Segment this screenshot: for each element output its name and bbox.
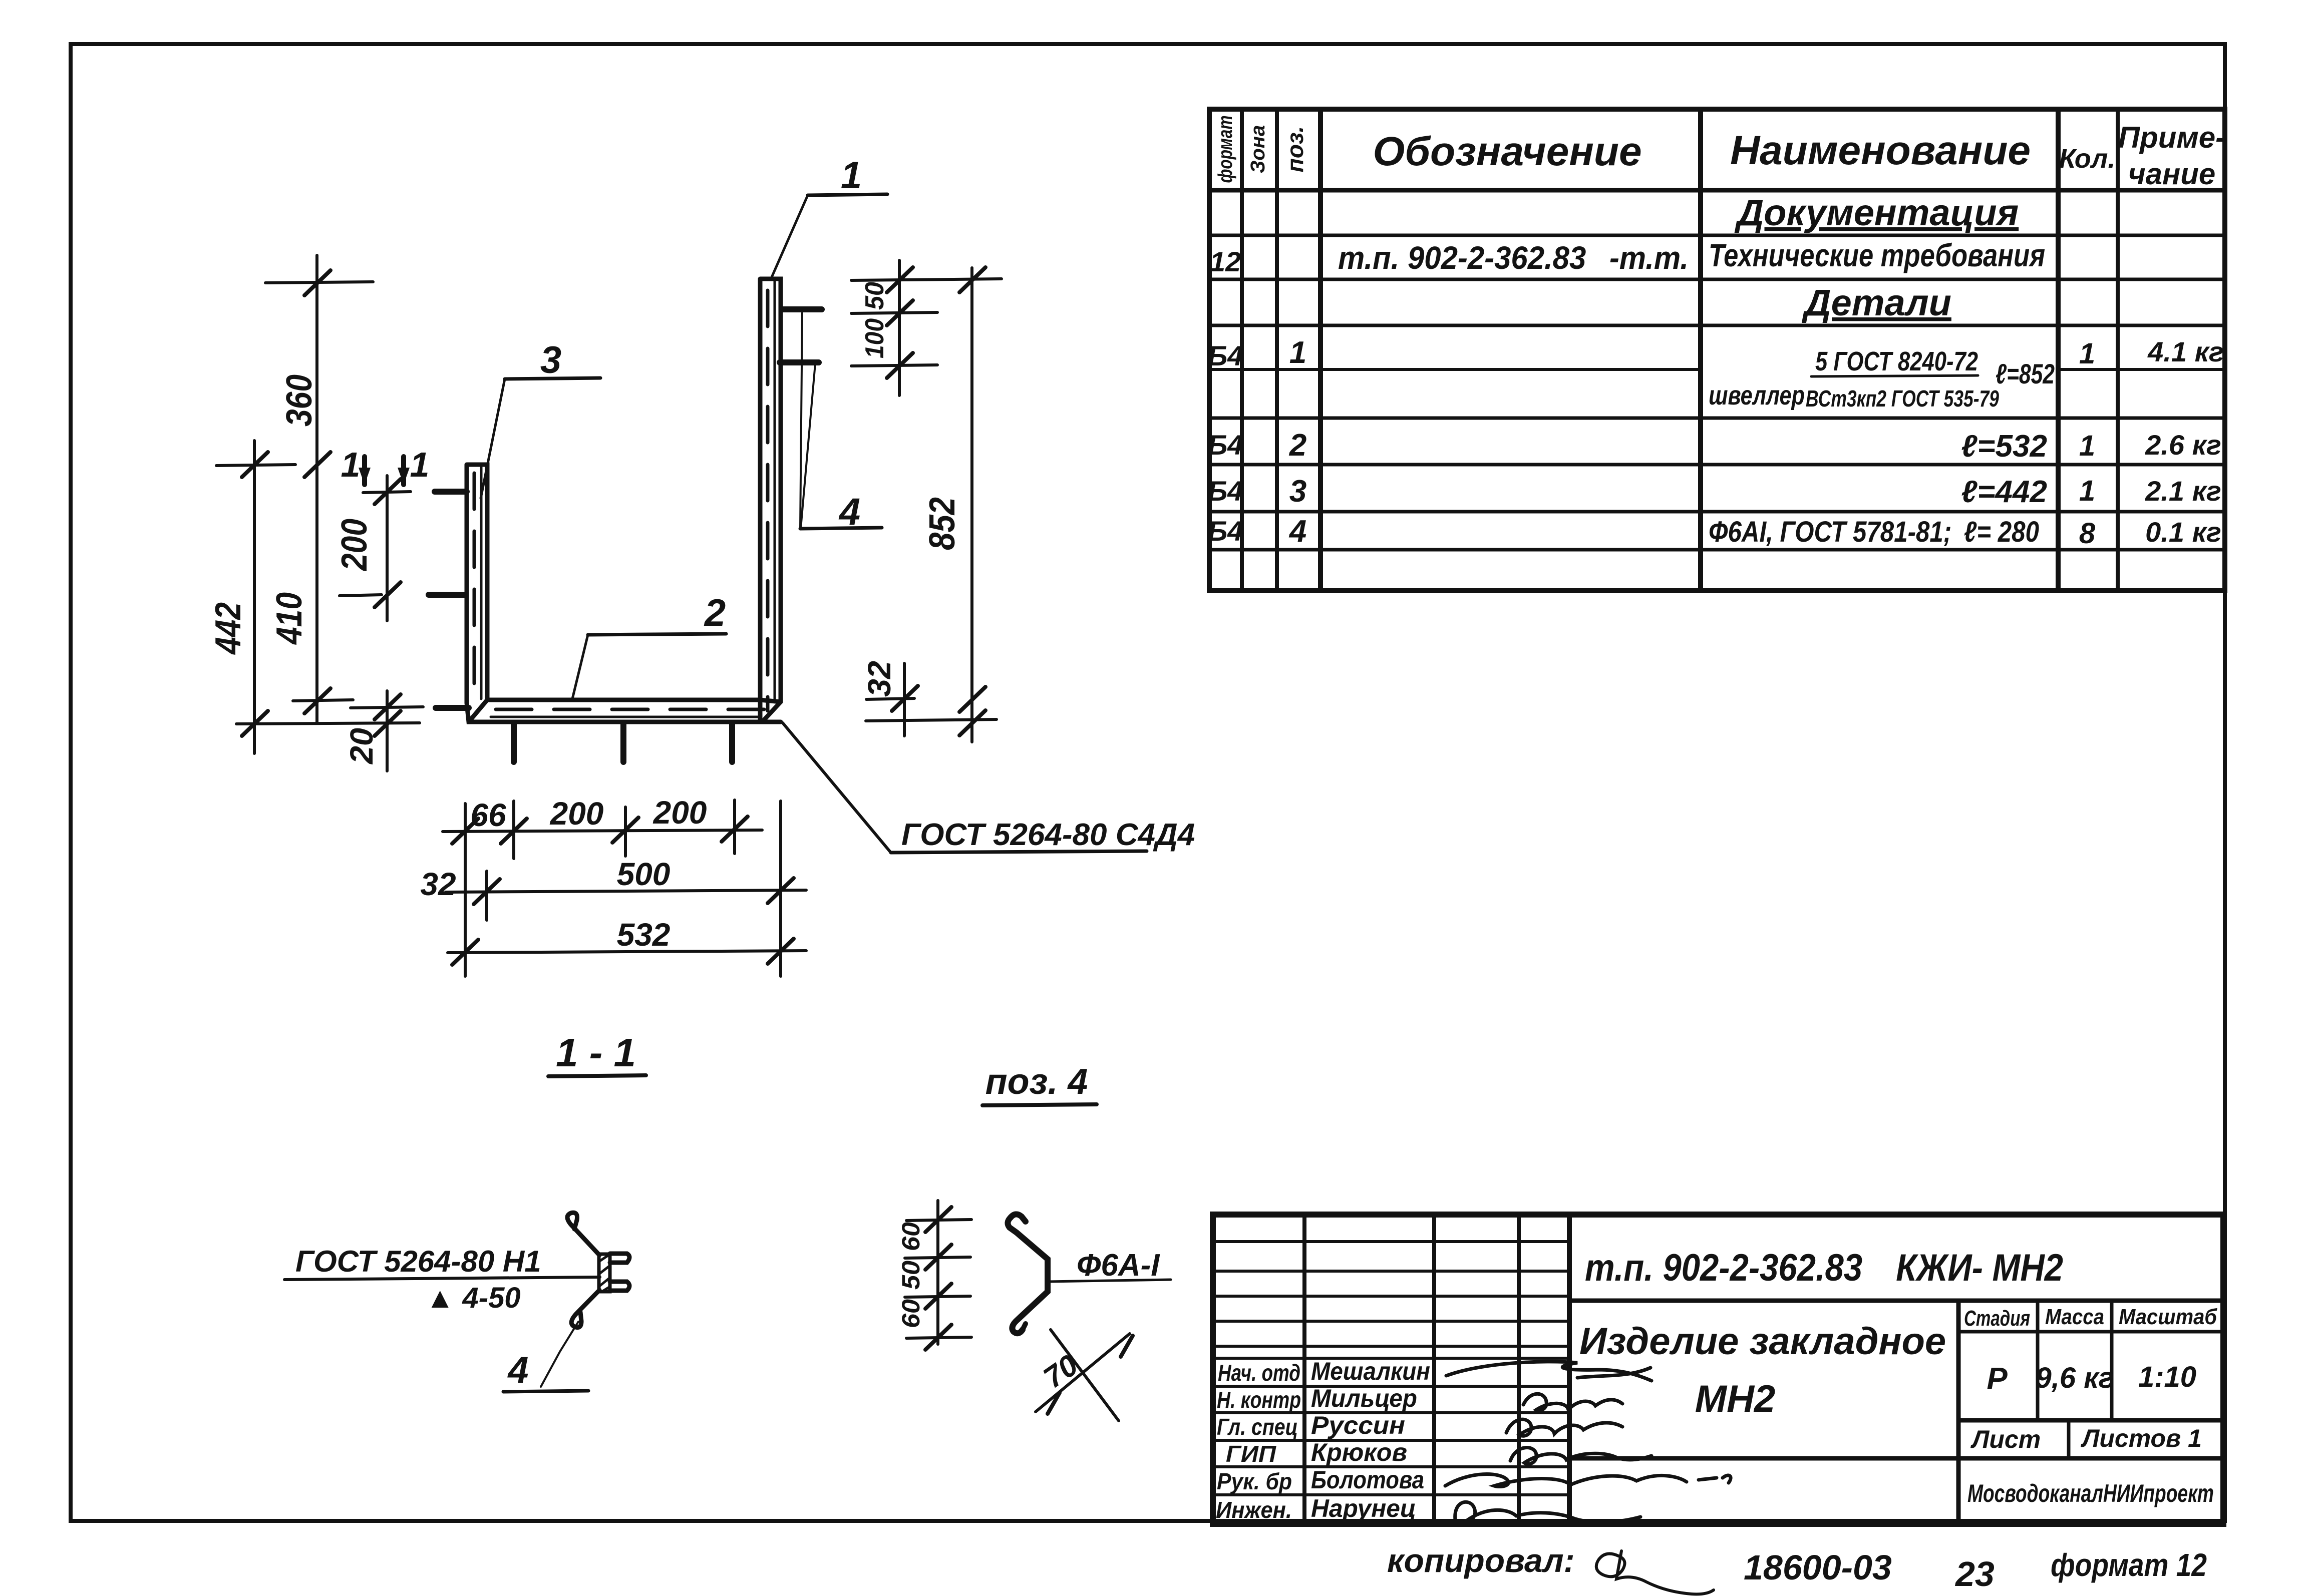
dim 200 ticks (375, 479, 401, 504)
svg-text:Листов 1: Листов 1 (2081, 1424, 2202, 1452)
svg-text:Зона: Зона (1247, 125, 1269, 174)
svg-text:Б4: Б4 (1208, 429, 1243, 461)
поз.2 inner line (491, 716, 759, 718)
name cell bottom line (1569, 1456, 2223, 1461)
svg-text:50: 50 (860, 282, 889, 310)
dim 442 extension mid (216, 465, 295, 466)
svg-text:200: 200 (653, 794, 707, 831)
svg-text:2: 2 (1289, 428, 1306, 463)
svg-text:12: 12 (1210, 246, 1241, 277)
anchor stud tall upright bottom (780, 359, 819, 365)
стадия/масса/масштаб header underline (1958, 1330, 2223, 1334)
svg-text:▲ 4-50: ▲ 4-50 (426, 1282, 521, 1314)
anchor rod lower with hook (571, 1290, 599, 1328)
header bottom line (1209, 188, 2225, 193)
svg-text:формат: формат (1214, 116, 1236, 183)
svg-text:4: 4 (1288, 514, 1306, 549)
signature area column 3 (1517, 1215, 1521, 1524)
dim 32 right ticks (892, 686, 918, 711)
rod bottom hook tip (1023, 1324, 1026, 1330)
поз.1 dashed axis (766, 290, 770, 711)
svg-text:Ф6А-I: Ф6А-I (1077, 1248, 1160, 1283)
svg-text:Кол.: Кол. (2059, 144, 2116, 174)
svg-text:60: 60 (897, 1299, 925, 1328)
svg-text:Н. контр: Н. контр (1217, 1387, 1301, 1413)
dim 50/100 mid extension (851, 312, 937, 313)
ticks on 532 (452, 940, 478, 965)
section bottom flange (610, 1282, 629, 1291)
bent anchor rod поз.4 (1008, 1218, 1048, 1333)
anchor stud tall upright top (782, 306, 822, 312)
svg-text:Ф6АI, ГОСТ 5781-81; ℓ= 280: Ф6АI, ГОСТ 5781-81; ℓ= 280 (1709, 516, 2039, 548)
svg-text:1:10: 1:10 (2138, 1361, 2196, 1393)
dim 442 vertical line (253, 441, 256, 753)
стадия/масса column lines (2036, 1301, 2040, 1420)
column line: кол (2056, 109, 2061, 591)
svg-text:Наименование: Наименование (1730, 128, 2031, 173)
svg-text:ℓ=532: ℓ=532 (1961, 429, 2047, 464)
svg-text:442: 442 (208, 602, 248, 655)
стадия/масса row bottom (1958, 1418, 2223, 1423)
svg-text:Приме-: Приме- (2118, 121, 2225, 154)
svg-text:50: 50 (897, 1261, 925, 1290)
svg-text:ГОСТ 5264-80 С4Д4: ГОСТ 5264-80 С4Д4 (901, 818, 1195, 852)
svg-text:3: 3 (540, 339, 561, 381)
svg-text:66: 66 (470, 797, 506, 833)
column line: обозначение/наименование (1698, 109, 1703, 591)
поз.3 inner flange line (480, 467, 483, 699)
svg-text:4.1 кг: 4.1 кг (2147, 336, 2224, 367)
svg-text:Обозначение: Обозначение (1373, 129, 1641, 174)
svg-text:2.6 кг: 2.6 кг (2145, 429, 2221, 461)
svg-text:500: 500 (617, 856, 671, 892)
svg-text:1 - 1: 1 - 1 (556, 1030, 636, 1075)
svg-text:2: 2 (704, 592, 726, 634)
svg-text:Руссин: Руссин (1311, 1411, 1405, 1439)
svg-text:3: 3 (1289, 474, 1306, 509)
svg-text:1: 1 (341, 445, 361, 484)
dim 200 left vertical line (386, 476, 389, 621)
svg-text:60: 60 (897, 1222, 925, 1251)
svg-text:МосводоканалНИИпроект: МосводоканалНИИпроект (1967, 1479, 2214, 1507)
signature area right divider (1567, 1215, 1572, 1524)
column line: зона (1275, 109, 1279, 591)
лист/листов divider (2067, 1420, 2071, 1458)
svg-text:Изделие закладное: Изделие закладное (1579, 1320, 1946, 1363)
svg-text:ℓ=852: ℓ=852 (1996, 358, 2055, 389)
dim 32 right vertical (903, 663, 906, 736)
svg-text:Стадия: Стадия (1964, 1306, 2030, 1331)
dim 500 short extension (485, 871, 488, 920)
svg-text:200: 200 (335, 519, 375, 572)
svg-text:200: 200 (550, 795, 604, 832)
dim 50/100 bottom extension (851, 365, 937, 366)
bottom right extension line (866, 719, 997, 721)
dim chain extensions (906, 1220, 971, 1221)
dim line 532 (448, 951, 806, 953)
svg-text:Б4: Б4 (1208, 515, 1243, 547)
dim 360: extension top (265, 282, 373, 283)
dim 360 ticks (304, 270, 331, 295)
svg-text:Б4: Б4 (1208, 340, 1243, 371)
svg-text:формат 12: формат 12 (2051, 1547, 2207, 1583)
row line 7 (1209, 548, 2225, 552)
dim 32 right extension top (866, 698, 914, 699)
dim 50/100 vertical (898, 260, 901, 395)
dim 360/410 vertical line (315, 255, 318, 723)
svg-text:т.п. 902-2-362.83 -т.т.: т.п. 902-2-362.83 -т.т. (1338, 240, 1689, 276)
anchor stud left upright top (435, 489, 467, 495)
svg-text:360: 360 (279, 374, 319, 427)
svg-text:Рук. бр: Рук. бр (1217, 1468, 1292, 1494)
dim 442 ticks (242, 452, 268, 477)
row line 5 (1209, 463, 2225, 467)
svg-text:1: 1 (410, 445, 430, 484)
svg-text:1: 1 (2079, 475, 2095, 507)
section mark 1 right (401, 457, 406, 485)
row line 4 (1209, 417, 2225, 420)
svg-text:1: 1 (2079, 337, 2095, 370)
svg-text:Масштаб: Масштаб (2119, 1305, 2218, 1329)
column line: поз (1318, 109, 1323, 591)
bottom dim line 66/200/200 (443, 830, 762, 832)
dim 50/100 ticks (887, 267, 913, 292)
specification table outer box (1209, 109, 2225, 591)
dim chain ticks (925, 1207, 951, 1232)
signature area column 1 (1302, 1215, 1306, 1524)
signature area row lines (1213, 1240, 1569, 1243)
svg-text:23: 23 (1954, 1554, 1995, 1593)
svg-text:1: 1 (2079, 430, 2095, 462)
dim 50/100 top extension (851, 279, 1002, 280)
svg-text:Р: Р (1987, 1362, 2008, 1396)
svg-text:2.1 кг: 2.1 кг (2145, 475, 2221, 507)
svg-text:852: 852 (922, 497, 962, 550)
channel поз.2 bottom member outline (467, 700, 781, 722)
row line 1 (1209, 234, 2225, 237)
partial row line left of поз.1 (1209, 368, 1701, 371)
svg-text:0.1 кг: 0.1 кг (2145, 516, 2221, 548)
signature Н.контр (1523, 1394, 1622, 1410)
svg-text:Лист: Лист (1970, 1425, 2041, 1453)
svg-text:5 ГОСТ 8240-72: 5 ГОСТ 8240-72 (1815, 346, 1978, 376)
right columns divider (1956, 1301, 1961, 1524)
svg-text:Мильцер: Мильцер (1311, 1384, 1417, 1412)
svg-text:1: 1 (1289, 335, 1306, 370)
svg-text:чание: чание (2128, 157, 2216, 191)
dim 852 ticks (959, 267, 985, 292)
поз.1 inner flange line (774, 281, 776, 701)
anchor stud left upright bottom (429, 592, 466, 598)
title block outer box (1213, 1215, 2223, 1524)
svg-text:100: 100 (860, 318, 889, 358)
svg-text:Б4: Б4 (1208, 475, 1243, 507)
svg-text:Детали: Детали (1801, 282, 1951, 323)
svg-text:4: 4 (507, 1349, 528, 1391)
svg-text:32: 32 (861, 661, 897, 697)
svg-text:Болотова: Болотова (1311, 1466, 1424, 1494)
svg-text:410: 410 (269, 592, 309, 645)
dim 20 ticks (375, 694, 401, 719)
dim 20 vertical (386, 691, 389, 771)
row line 3 (1209, 324, 2225, 327)
anchor rod upper with hook (567, 1213, 599, 1255)
svg-text:1: 1 (841, 154, 862, 197)
поз.2 dashed axis (496, 708, 771, 711)
svg-text:швеллер: швеллер (1709, 380, 1805, 411)
channel поз.3 short left upright outline (467, 465, 487, 703)
signature Рук.бр (1445, 1474, 1731, 1487)
column line: примечание (2116, 109, 2120, 591)
signature Гл.спец (1506, 1419, 1622, 1436)
bottom extension long line (236, 723, 420, 724)
svg-text:Документация: Документация (1734, 192, 2019, 233)
svg-text:МН2: МН2 (1695, 1378, 1775, 1420)
signature ГИП (1510, 1448, 1652, 1464)
svg-text:ГОСТ 5264-80 Н1: ГОСТ 5264-80 Н1 (295, 1245, 541, 1278)
ticks on 500 (474, 879, 500, 904)
svg-text:8: 8 (2079, 517, 2096, 550)
anchor stud on corner left (436, 705, 469, 711)
dim 852 vertical (970, 268, 973, 742)
svg-text:9,6 кг: 9,6 кг (2035, 1362, 2114, 1394)
column line: формат (1240, 109, 1244, 591)
svg-text:поз. 4: поз. 4 (985, 1062, 1088, 1102)
dim chain vertical (936, 1201, 939, 1344)
leader line (1048, 1280, 1171, 1282)
row line 6 (1209, 510, 2225, 514)
studs below bottom member (511, 723, 517, 762)
svg-text:т.п. 902-2-362.83 КЖИ- МН2: т.п. 902-2-362.83 КЖИ- МН2 (1585, 1247, 2063, 1289)
row line 2 (1209, 278, 2225, 281)
svg-text:20: 20 (344, 728, 380, 764)
partial row line right of поз.1 (2058, 368, 2225, 371)
dim 20 extension (351, 707, 423, 708)
dim 200 extension top (363, 492, 411, 493)
dim 410 bottom extension (293, 700, 353, 701)
signature area column 2 (1432, 1215, 1436, 1524)
svg-text:ГИП: ГИП (1226, 1441, 1276, 1467)
weld note underline / leader (284, 1277, 600, 1280)
svg-text:Технические требования: Технические требования (1709, 237, 2045, 273)
svg-text:18600-03: 18600-03 (1744, 1548, 1892, 1587)
leader 4 of section (541, 1322, 578, 1387)
crossed dim 70 (1036, 1334, 1130, 1412)
svg-text:Нач. отд: Нач. отд (1218, 1360, 1300, 1386)
extension verticals for studs (464, 804, 467, 976)
designation cell bottom line (1569, 1299, 2223, 1303)
svg-text:32: 32 (420, 866, 456, 902)
section top flange (610, 1254, 629, 1263)
svg-text:Инжен.: Инжен. (1216, 1497, 1292, 1523)
svg-text:532: 532 (617, 917, 671, 953)
svg-text:Крюков: Крюков (1311, 1438, 1407, 1466)
weld leader ГОСТ 5264-80 С4Д4 (783, 723, 891, 853)
dim 200 extension bottom (340, 595, 382, 596)
signature Инжен. (1455, 1502, 1640, 1522)
поз.3 dashed axis (473, 473, 476, 696)
section web (hatched) (599, 1254, 610, 1292)
svg-text:поз.: поз. (1282, 126, 1308, 172)
svg-text:Гл. спец: Гл. спец (1217, 1414, 1298, 1440)
копировал signature (1596, 1551, 1714, 1594)
svg-text:ℓ=442: ℓ=442 (1961, 475, 2047, 509)
svg-text:Масса: Масса (2045, 1305, 2104, 1329)
signature Нач.отд (1446, 1362, 1652, 1381)
ticks on 66/200/200 (452, 819, 478, 844)
svg-text:ВСт3кп2 ГОСТ 535-79: ВСт3кп2 ГОСТ 535-79 (1806, 385, 1999, 412)
svg-text:копировал:: копировал: (1387, 1542, 1575, 1579)
svg-text:Нарунец: Нарунец (1311, 1494, 1416, 1522)
channel поз.1 tall right upright outline (760, 279, 781, 722)
svg-text:Мешалкин: Мешалкин (1311, 1357, 1430, 1385)
rod top hook tip (1011, 1214, 1026, 1222)
dim 410 bottom tick (304, 688, 331, 713)
dim line 500 (446, 890, 806, 892)
